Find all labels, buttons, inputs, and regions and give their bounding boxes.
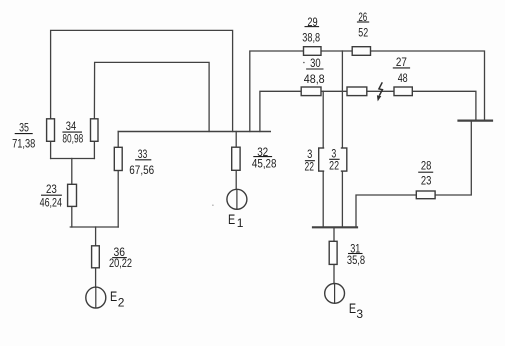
svg-text:E: E [110,289,117,304]
wire R31 to E3 [333,264,335,283]
node E2 branch line [70,226,118,228]
wire R34 bottom [93,141,95,158]
wire row2 between R30 Rx [321,90,347,92]
svg-text:67,56: 67,56 [129,163,154,177]
svg-text:22: 22 [329,158,339,172]
wire R35 bottom [50,141,52,158]
wire right 3-22 branch bottom [341,171,343,227]
svg-text:27: 27 [396,55,407,69]
source E1 [227,189,247,209]
svg-text:E: E [228,212,235,227]
wire row1 right to bar [371,51,485,121]
wire row2 right to bar [412,91,476,120]
wire R23 bottom [71,206,73,227]
wire left 3-22 branch top [322,91,324,148]
resistor R29 [304,47,322,56]
wire outer top loop [51,30,233,131]
wire row2 Rx to R27 [367,90,394,92]
resistor R28 [416,191,435,199]
svg-text:52: 52 [358,26,368,40]
wire bar to R31 [333,227,335,241]
label R30 value 30/48,8 [303,56,325,86]
svg-text:80,98: 80,98 [62,132,83,146]
wire R33 branch [117,132,119,148]
label R28 value 28/23 [418,159,433,188]
resistor R27 [394,87,412,96]
label R31 value 31/35,8 [347,242,365,267]
wire row2 riser [260,91,301,131]
label R26 value 26/52 [357,10,369,40]
svg-text:28: 28 [421,159,432,173]
label source E3 [349,301,364,321]
resistor R36 [92,246,100,268]
resistor R32 [232,147,240,170]
node bottom bar E3 [313,226,357,228]
wire R36 to E2 [95,268,97,288]
label R27 value 27/48 [393,55,410,85]
node right bar [459,119,493,121]
svg-text:20,22: 20,22 [109,256,132,270]
svg-text:48: 48 [398,71,408,85]
wire down to R23 [71,159,73,185]
svg-text:71,38: 71,38 [12,136,35,150]
svg-text:22: 22 [304,159,314,173]
resistor R26 [352,47,370,56]
source E3 [325,284,345,304]
label source E1 [228,212,244,230]
svg-text:35,8: 35,8 [347,253,365,267]
label R23 value 23/46,24 [40,182,63,210]
resistor R33 [114,147,122,170]
wire R32 drop [235,132,237,148]
svg-text:2: 2 [118,296,125,310]
wire row1 between R29 R26 [321,50,352,52]
svg-text:45,28: 45,28 [252,157,277,171]
svg-text:38,8: 38,8 [302,30,320,44]
resistor R30 [301,87,321,96]
label R29 value 29/38,8 [302,15,320,45]
svg-text:E: E [349,301,356,316]
white mask under center 3-22 label [324,147,341,173]
label R3a value 3/22 [304,147,314,173]
speck [212,205,213,206]
source E2 [86,287,106,308]
resistor R3a left 3-22 [319,148,328,171]
resistor R35 [47,119,55,142]
resistor R31 [329,241,337,264]
svg-text:30: 30 [310,56,321,70]
svg-text:33: 33 [138,147,148,161]
resistor R23 [68,184,77,206]
short-circuit lightning arrow [379,82,383,95]
wire right 3-22 branch top [341,51,343,148]
wire left 3-22 branch bottom [322,171,324,227]
svg-text:48,8: 48,8 [304,72,325,86]
wire R32 to E1 [235,170,237,189]
label R34 value 34/80,98 [62,119,83,146]
svg-text:3: 3 [356,307,363,321]
label R3b value 3/22 [329,146,339,172]
wire row1 riser [250,51,304,132]
label source E2 [110,289,125,309]
wire down to R36 [95,227,97,246]
svg-text:23: 23 [46,182,57,196]
wire R28 to bottom bar [356,195,416,227]
svg-text:35: 35 [19,120,29,134]
resistor Rx unlabeled [347,87,367,96]
label R32 value 32/45,28 [252,145,277,171]
node bus center [118,131,270,133]
wire right bar to R28 [435,121,471,195]
svg-text:46,24: 46,24 [40,196,63,210]
resistor R3b right 3-22 [338,148,347,171]
label R33 value 33/67,56 [129,147,154,177]
resistor R34 [91,119,99,142]
svg-text:23: 23 [421,174,432,188]
wire inner top loop [94,62,209,131]
label R35 value 35/71,38 [12,120,35,150]
svg-text:1: 1 [237,216,244,230]
wire join 35-34 [51,158,95,160]
label R36 value 36/20,22 [109,245,132,270]
